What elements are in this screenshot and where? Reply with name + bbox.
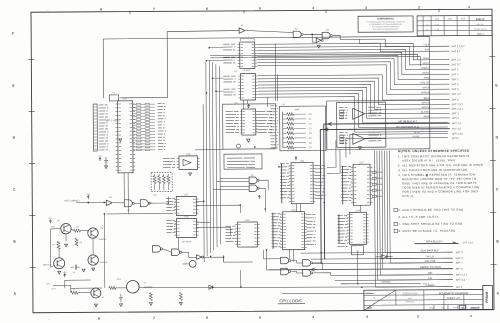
wire xyxy=(150,197,168,204)
wire xyxy=(257,55,449,80)
ground xyxy=(149,303,152,306)
svg-text:8. MUST BE IN SAME I.C. PACKA: 8. MUST BE IN SAME I.C. PACKAGE. xyxy=(398,229,456,233)
svg-text:5. AND 5 SHOULD BE TIED THIS: 5. AND 5 SHOULD BE TIED THIS TO GND. xyxy=(398,208,464,212)
nand gate B8 xyxy=(172,249,180,256)
op-amp U5 xyxy=(353,108,365,119)
svg-text:-WRHIB: -WRHIB xyxy=(421,91,430,94)
outer box around comparator cluster xyxy=(327,100,430,149)
svg-text:SHT 2,3: SHT 2,3 xyxy=(452,122,462,125)
svg-text:7-26: 7-26 xyxy=(435,29,438,31)
wire xyxy=(359,205,361,212)
wire bus verticals xyxy=(203,60,221,262)
svg-text:SHT 4: SHT 4 xyxy=(456,287,463,289)
svg-text:2. ALL RESISTORS ARE 1/4W, 5%: 2. ALL RESISTORS ARE 1/4W, 5%, AND ARE I… xyxy=(398,163,484,168)
svg-text:U14: U14 xyxy=(356,209,361,212)
+12V xyxy=(49,220,51,224)
wire xyxy=(346,138,448,158)
wire xyxy=(210,56,420,67)
decoder U14 74LS139 xyxy=(337,215,348,246)
svg-text:.: . xyxy=(49,317,50,321)
node dots on bus xyxy=(206,60,208,62)
ground xyxy=(119,139,122,142)
svg-text:SHT 7: SHT 7 xyxy=(456,262,464,265)
wire xyxy=(269,269,453,270)
svg-text:SHT 2,3: SHT 2,3 xyxy=(452,128,462,131)
svg-text:3. ALL CAPACITORS ARE IN MICR: 3. ALL CAPACITORS ARE IN MICROFARADS. xyxy=(398,168,468,172)
resistor R26 xyxy=(179,292,182,300)
wire xyxy=(291,260,302,263)
transistor Q1 2N2222 xyxy=(61,223,71,233)
svg-text:SHT 5,7: SHT 5,7 xyxy=(451,63,461,66)
resistor RT2 xyxy=(163,174,165,175)
svg-text:1-14: 1-14 xyxy=(435,24,438,26)
svg-text:MP DB BUS Ø-7: MP DB BUS Ø-7 xyxy=(398,120,417,123)
wire xyxy=(331,274,453,277)
wire xyxy=(163,249,171,253)
svg-text:R5: R5 xyxy=(76,227,78,229)
svg-text:2: 2 xyxy=(418,5,420,9)
svg-text:3: 3 xyxy=(366,315,368,319)
wire xyxy=(257,46,449,66)
title block xyxy=(364,289,483,310)
svg-text:FSCM: FSCM xyxy=(453,307,458,309)
oscillator Y2 4MHz xyxy=(126,280,139,293)
wire xyxy=(335,279,453,282)
svg-text:200113: 200113 xyxy=(476,17,485,21)
transistor Q4 xyxy=(88,255,98,265)
wire xyxy=(327,140,336,167)
svg-text:7: 7 xyxy=(153,7,155,11)
svg-text:SHT 5,7: SHT 5,7 xyxy=(451,50,461,53)
resistor RT1 xyxy=(158,174,160,175)
svg-text:U11: U11 xyxy=(300,160,305,163)
wire xyxy=(247,100,249,104)
svg-text:2N2222A: 2N2222A xyxy=(100,261,109,264)
wire xyxy=(243,100,245,109)
resistor R11 xyxy=(283,118,287,120)
svg-text:(PIN 1).: (PIN 1). xyxy=(402,194,414,198)
resistor R14 xyxy=(283,132,287,134)
svg-text:-WRCH: -WRCH xyxy=(421,106,430,109)
svg-text:SHT 6: SHT 6 xyxy=(451,83,459,86)
svg-text:SHT 2,3,7: SHT 2,3,7 xyxy=(452,103,464,106)
svg-text:SHT 3: SHT 3 xyxy=(451,73,459,76)
bus MP ADDR BUS 0-11 xyxy=(320,129,450,264)
+5V xyxy=(87,195,89,199)
+5V xyxy=(99,157,101,161)
transistor Q6 xyxy=(236,144,240,148)
inverter A1 xyxy=(239,28,245,33)
svg-text:SHT 3,4: SHT 3,4 xyxy=(456,279,466,282)
wire xyxy=(301,252,453,253)
svg-text:IT IS ISSUED IN STRICT CONFIDE: IT IS ISSUED IN STRICT CONFIDENCE xyxy=(372,26,399,28)
svg-text:- ABCDE XYZ BUS: - ABCDE XYZ BUS xyxy=(419,265,441,269)
svg-text:-RFSH: -RFSH xyxy=(413,132,420,134)
svg-text:+WRBND: +WRBND xyxy=(381,282,391,284)
wire xyxy=(257,64,449,95)
resistor R13 xyxy=(283,128,287,130)
buffer A5 xyxy=(106,200,112,205)
svg-text:-WR: -WR xyxy=(427,271,432,275)
wire xyxy=(257,58,449,85)
wire xyxy=(258,93,448,128)
wire bundle to lower signals xyxy=(374,150,452,287)
resistor R15 xyxy=(283,137,287,139)
svg-text:R7: R7 xyxy=(53,244,55,246)
wire xyxy=(183,263,190,265)
capacitor C1 xyxy=(104,157,108,166)
wire xyxy=(167,30,239,33)
wire xyxy=(53,285,71,293)
address label box xyxy=(224,154,262,169)
svg-text:ASSY 200108 AT R.I. LEVEL 'NN: ASSY 200108 AT R.I. LEVEL 'NNN'. xyxy=(402,158,457,162)
svg-text:2: 2 xyxy=(417,314,419,318)
flipflop U17 xyxy=(166,198,176,210)
svg-text:4: 4 xyxy=(312,6,314,10)
wire xyxy=(139,286,453,289)
wire xyxy=(196,200,203,202)
svg-text:SHT 2,3,6: SHT 2,3,6 xyxy=(452,133,464,136)
wire xyxy=(257,52,449,75)
latch U7 74LS373 xyxy=(226,112,239,133)
svg-text:U10: U10 xyxy=(122,97,127,100)
wire xyxy=(258,78,450,106)
svg-text:SHT 2,3,7: SHT 2,3,7 xyxy=(452,108,464,111)
wire xyxy=(71,287,102,289)
box around latch U7 xyxy=(223,104,276,149)
ground xyxy=(92,268,95,271)
wire xyxy=(359,39,449,52)
svg-text:PRIAM: PRIAM xyxy=(485,292,489,303)
wire xyxy=(210,54,417,61)
wire xyxy=(213,189,249,191)
wire xyxy=(203,257,223,262)
wire xyxy=(313,273,330,276)
+5V xyxy=(258,195,260,199)
svg-text:AØØ: AØØ xyxy=(295,108,300,111)
svg-text:SHT 4: SHT 4 xyxy=(452,99,460,102)
svg-text:5: 5 xyxy=(259,315,261,319)
svg-text:.: . xyxy=(48,8,49,12)
wire xyxy=(267,250,281,270)
+5V xyxy=(64,274,66,278)
resistor network box L1 xyxy=(280,106,326,151)
svg-text:A5: A5 xyxy=(102,296,104,299)
svg-text:SHT 2,3: SHT 2,3 xyxy=(451,59,461,62)
wire xyxy=(291,271,302,273)
inverter A4 with ground xyxy=(316,38,321,43)
or gate B6 xyxy=(303,270,311,277)
svg-text:NOTES: UNLESS OTHERWISE SPECI: NOTES: UNLESS OTHERWISE SPECIFIED xyxy=(398,149,470,153)
labels left of L1 xyxy=(270,106,278,148)
wire xyxy=(71,229,74,231)
svg-text:5: 5 xyxy=(259,6,261,10)
resistor RT3 xyxy=(167,174,169,175)
svg-text:OTHERWISE NOTED: OTHERWISE NOTED xyxy=(403,294,419,296)
nor gate B1 xyxy=(249,177,257,184)
comparator box U5 U6 xyxy=(337,102,386,147)
+5V xyxy=(295,157,297,161)
wire xyxy=(257,49,449,71)
resistor R25 xyxy=(149,293,152,301)
svg-text:U17: U17 xyxy=(184,193,189,196)
wire xyxy=(102,39,104,98)
ground xyxy=(58,271,61,274)
wire xyxy=(196,221,210,223)
svg-text:MP A BUS Ø-7: MP A BUS Ø-7 xyxy=(426,240,443,243)
resistor R9 xyxy=(71,291,78,294)
resistor stack in comparator box xyxy=(340,110,344,143)
wire xyxy=(304,33,322,35)
svg-text:-WRLDG: -WRLDG xyxy=(420,82,430,85)
svg-text:U18: U18 xyxy=(184,215,189,218)
ram U13 2114 xyxy=(271,214,281,247)
wire xyxy=(299,204,301,212)
svg-text:SHT 6: SHT 6 xyxy=(452,88,460,91)
flipflop U16 xyxy=(179,156,198,170)
svg-text:-WR16: -WR16 xyxy=(422,86,430,89)
wire xyxy=(149,202,152,204)
svg-text:U13: U13 xyxy=(291,209,296,212)
svg-text:-BRQ: -BRQ xyxy=(423,77,429,80)
svg-text:1: 1 xyxy=(470,314,472,318)
capacitor C7 xyxy=(119,294,123,303)
ground xyxy=(119,304,122,307)
svg-text:4: 4 xyxy=(312,315,314,319)
svg-text:3: 3 xyxy=(365,6,367,10)
svg-text:WPC: WPC xyxy=(367,308,373,310)
buffer U4 74LS244 xyxy=(223,76,235,82)
svg-text:8: 8 xyxy=(98,316,100,320)
resistor RT0 xyxy=(154,174,156,175)
PRIAM vertical logo box xyxy=(483,285,493,309)
wire xyxy=(220,178,249,180)
resistor R24 xyxy=(109,286,116,289)
ground xyxy=(358,147,361,150)
wire xyxy=(258,87,450,119)
wire xyxy=(276,74,278,100)
svg-text:+12V: +12V xyxy=(48,218,53,220)
svg-text:F: F xyxy=(12,32,14,36)
svg-text:2N2907A: 2N2907A xyxy=(43,263,52,266)
wire stubs top of U3 xyxy=(240,38,254,41)
svg-text:SHT 2: SHT 2 xyxy=(452,117,460,120)
wire xyxy=(50,228,60,230)
ground xyxy=(82,269,85,272)
wire xyxy=(134,202,140,204)
microprocessor U10 Z80 xyxy=(99,105,109,150)
svg-text:SCHEMATIC DIAGRAM: SCHEMATIC DIAGRAM xyxy=(439,291,469,295)
wire xyxy=(258,90,448,124)
note number boxes xyxy=(394,208,398,232)
transistor Q5 xyxy=(91,288,101,298)
series resistor array right of CPU xyxy=(133,103,156,150)
wire xyxy=(92,238,94,254)
svg-text:SHT 3: SHT 3 xyxy=(456,257,464,260)
svg-text:7. ONE-SHOT SHOULD BE TIED TO: 7. ONE-SHOT SHOULD BE TIED TO GND. xyxy=(398,222,463,226)
wire xyxy=(257,43,449,61)
ground xyxy=(65,244,68,247)
latch U15 xyxy=(225,226,236,242)
svg-text:-RDBSY: -RDBSY xyxy=(420,67,430,70)
svg-text:SHT 2 (MRST): SHT 2 (MRST) xyxy=(64,200,79,202)
wire xyxy=(341,282,421,285)
svg-text:C8/.1: C8/.1 xyxy=(117,279,122,281)
wire xyxy=(327,149,340,173)
wire xyxy=(259,188,266,212)
nand gate A6 xyxy=(124,200,132,207)
wire xyxy=(58,249,60,257)
svg-text:CONFIDENTIAL: CONFIDENTIAL xyxy=(377,17,395,20)
wire taps to buffer labels xyxy=(206,48,223,92)
wire xyxy=(274,43,276,100)
op-amp U6 xyxy=(353,133,365,144)
bus MP DB BUS 0-7 xyxy=(324,123,451,259)
svg-text:SHT 6: SHT 6 xyxy=(452,137,460,140)
wire xyxy=(293,250,295,262)
svg-text:MP ADDR BUS Ø-11: MP ADDR BUS Ø-11 xyxy=(396,126,420,129)
resistor R5 xyxy=(73,229,80,232)
ground xyxy=(105,166,108,169)
resistor R17 xyxy=(283,147,287,149)
svg-text:CPU LOGIC: CPU LOGIC xyxy=(279,298,303,303)
wire xyxy=(196,205,240,213)
transistor Q3 2N2907 xyxy=(54,258,65,269)
svg-text:OF OF OF: OF OF OF xyxy=(182,241,192,243)
svg-text:U16: U16 xyxy=(186,153,191,156)
wire xyxy=(195,149,223,151)
wire xyxy=(50,229,53,268)
svg-text:-BUSMA: -BUSMA xyxy=(420,111,430,114)
rom U11 2716 xyxy=(280,164,290,198)
svg-text:SHEET 1/7: SHEET 1/7 xyxy=(447,296,461,300)
svg-text:+12V: +12V xyxy=(46,283,51,285)
svg-text:680: 680 xyxy=(51,226,54,228)
wire xyxy=(103,36,429,102)
transistor Q7 xyxy=(189,260,196,267)
svg-text:-XX LD: -XX LD xyxy=(425,254,434,258)
svg-text:SHT 2,3,5,7: SHT 2,3,5,7 xyxy=(451,45,465,48)
wire xyxy=(267,97,269,107)
wire xyxy=(65,234,67,241)
wire stubs U7 xyxy=(256,111,258,131)
wire xyxy=(119,32,167,98)
decoder U12 74LS138 xyxy=(341,166,352,200)
svg-text:R8: R8 xyxy=(80,242,82,244)
wire xyxy=(258,84,450,115)
wire xyxy=(103,213,105,288)
wire xyxy=(123,173,125,200)
terminator box L2 xyxy=(151,173,172,192)
svg-text:-MRQ: -MRQ xyxy=(423,115,430,118)
svg-text:SHT 3: SHT 3 xyxy=(456,268,464,271)
wire xyxy=(282,293,374,294)
revision table xyxy=(417,15,492,35)
svg-text:-HALT: -HALT xyxy=(422,62,429,65)
resistor labels right of U12 xyxy=(372,171,383,197)
svg-text:SHT 2: SHT 2 xyxy=(451,68,459,71)
one-shot U19 xyxy=(352,246,364,255)
wire xyxy=(224,255,253,262)
or gate B5 xyxy=(303,260,311,267)
svg-text:6: 6 xyxy=(206,316,208,320)
svg-text:200113: 200113 xyxy=(477,34,485,36)
svg-text:MODEL: MODEL xyxy=(367,293,373,295)
title block diagonal xyxy=(364,290,396,310)
resistor R12 xyxy=(283,123,287,125)
or gate B4 xyxy=(281,268,289,275)
wire xyxy=(313,263,322,270)
svg-text:-WAIT: -WAIT xyxy=(422,57,429,60)
nand gate A3 xyxy=(322,32,330,39)
capacitor C5 xyxy=(71,265,80,270)
wire xyxy=(289,250,291,259)
wire xyxy=(333,35,449,47)
svg-text:SHT 3: SHT 3 xyxy=(452,112,460,115)
svg-text:SHT 2,3,7: SHT 2,3,7 xyxy=(456,274,468,277)
resistor R10 xyxy=(283,113,287,115)
node xyxy=(311,33,313,35)
svg-text:2N2222A: 2N2222A xyxy=(99,238,108,241)
wire xyxy=(258,81,450,110)
svg-text:-YXL PRE: -YXL PRE xyxy=(424,259,436,263)
svg-text:+RGBC: +RGBC xyxy=(412,136,420,138)
svg-text:CK: CK xyxy=(373,302,375,304)
svg-text:C5: C5 xyxy=(73,272,75,274)
wire xyxy=(264,250,281,259)
pin labels right of resistor array xyxy=(158,104,166,150)
wire xyxy=(258,96,448,133)
buffer U3 74LS244 xyxy=(223,44,235,50)
svg-text:47: 47 xyxy=(73,289,75,291)
svg-text:+12V: +12V xyxy=(51,288,56,290)
wire xyxy=(113,202,124,204)
wire xyxy=(217,181,249,183)
inverter B9 xyxy=(197,255,202,260)
svg-text:SHT 3: SHT 3 xyxy=(451,78,459,81)
nor gate B2 xyxy=(249,185,257,192)
ground xyxy=(94,304,97,307)
wire xyxy=(341,251,358,284)
node junction dots xyxy=(223,256,225,258)
ground xyxy=(247,139,250,142)
or gate B3 xyxy=(281,257,289,264)
svg-text:GEN DATA BLF: GEN DATA BLF xyxy=(420,248,439,252)
diode CR2 xyxy=(376,255,393,260)
wire xyxy=(182,252,196,257)
svg-text:100: 100 xyxy=(441,307,444,309)
wire xyxy=(240,270,242,287)
svg-text:-RQST: -RQST xyxy=(422,72,430,75)
resistor pack RP1 xyxy=(93,104,97,151)
svg-text:SHT 2,3: SHT 2,3 xyxy=(452,93,462,96)
svg-text:-BRW: -BRW xyxy=(423,97,430,100)
svg-text:1: 1 xyxy=(468,5,470,9)
resistor R8 xyxy=(75,238,78,246)
nand gate A2 xyxy=(293,31,301,38)
svg-text:REV LTR: REV LTR xyxy=(477,24,484,26)
svg-text:200109: 200109 xyxy=(470,306,479,310)
ground xyxy=(179,302,182,305)
svg-text:D: D xyxy=(462,306,464,310)
svg-text:U12: U12 xyxy=(359,161,364,164)
nand gate B7 xyxy=(153,246,161,253)
svg-text:6: 6 xyxy=(206,7,208,11)
wire xyxy=(312,34,316,42)
wire rail in L1 xyxy=(282,112,284,148)
svg-text:6. ALL I.C.'S ARE 74LSXX.: 6. ALL I.C.'S ARE 74LSXX. xyxy=(398,215,440,219)
wire xyxy=(80,231,88,233)
